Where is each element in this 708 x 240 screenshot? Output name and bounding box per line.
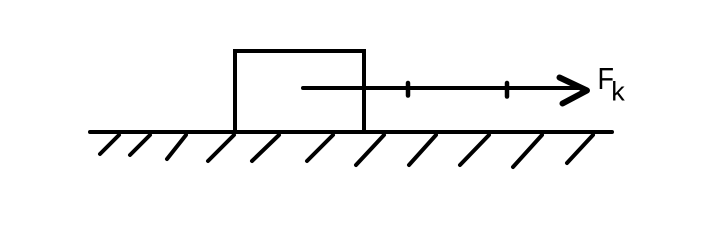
svg-text:k: k xyxy=(611,77,625,107)
